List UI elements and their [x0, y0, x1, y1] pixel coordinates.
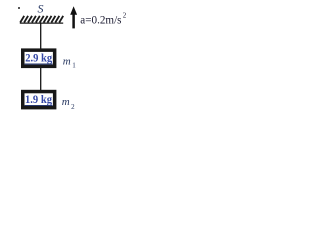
block m1 (2.9 kg) [23, 50, 55, 66]
svg-text:a=0.2m/s: a=0.2m/s [80, 15, 122, 27]
stray dot [18, 7, 20, 9]
wire: string from block m1 to block m2 [40, 68, 42, 91]
wire: string from ceiling to block m1 [40, 23, 42, 49]
acceleration arrow shaft [72, 14, 75, 29]
underline inside block m1 [25, 63, 53, 65]
ceiling line [20, 22, 63, 24]
acceleration arrow head [70, 6, 77, 14]
block m2 (1.9 kg) [23, 92, 55, 108]
svg-text:m: m [62, 96, 70, 108]
svg-text:S: S [38, 1, 44, 15]
underline inside block m2 [25, 105, 53, 107]
svg-text:1.9 kg: 1.9 kg [25, 92, 52, 106]
svg-text:1: 1 [72, 61, 76, 69]
svg-text:2: 2 [123, 12, 127, 20]
svg-text:2.9 kg: 2.9 kg [25, 51, 52, 65]
svg-text:2: 2 [71, 103, 75, 111]
svg-text:m: m [63, 56, 71, 68]
ceiling support hatching [20, 16, 63, 23]
